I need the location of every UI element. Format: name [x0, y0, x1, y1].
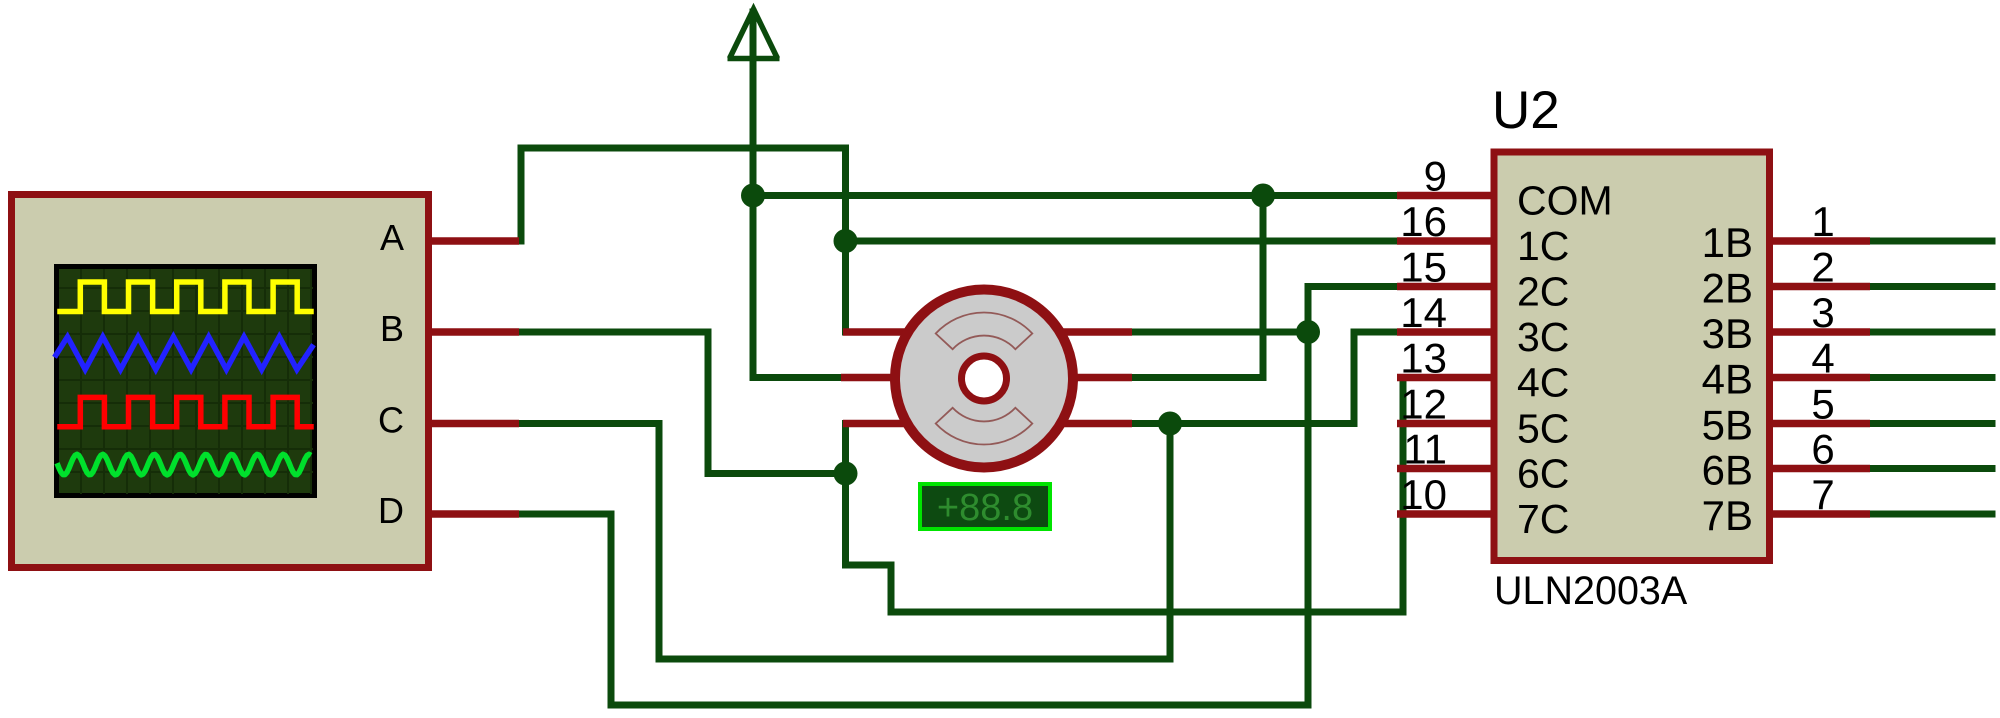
pin stub chip right 3 — [1769, 328, 1870, 336]
svg-text:6C: 6C — [1517, 451, 1569, 497]
junction node COM-power — [741, 184, 765, 208]
wire net-C from scope-C — [521, 424, 1170, 660]
junction node COM / motor-R2 — [1251, 184, 1275, 208]
svg-text:1B: 1B — [1702, 219, 1753, 266]
svg-text:3: 3 — [1811, 289, 1834, 336]
svg-text:COM: COM — [1517, 178, 1613, 224]
svg-text:11: 11 — [1403, 426, 1447, 473]
svg-text:6: 6 — [1811, 426, 1834, 473]
svg-text:D: D — [378, 490, 404, 531]
wire net-A to chip pin16 1C — [846, 238, 1398, 245]
wire output 1B — [1868, 238, 1992, 245]
pin stub scope C — [427, 420, 519, 428]
svg-text:5B: 5B — [1702, 402, 1753, 449]
svg-text:4: 4 — [1811, 335, 1834, 382]
svg-text:1: 1 — [1811, 198, 1834, 245]
wire net-B from scope-B — [521, 332, 846, 474]
pin stub chip left row0 — [1397, 192, 1496, 200]
junction node C / 3C — [1158, 412, 1182, 436]
pin stub motor R1 — [1048, 328, 1132, 336]
pin stub chip left row7 — [1397, 510, 1496, 518]
svg-text:14: 14 — [1400, 289, 1447, 336]
svg-text:10: 10 — [1400, 471, 1447, 518]
screen grid — [59, 269, 313, 494]
svg-text:2C: 2C — [1517, 269, 1569, 315]
rpm display — [920, 484, 1050, 529]
svg-text:5: 5 — [1811, 381, 1834, 428]
wire output 6B — [1868, 465, 1992, 472]
wire output 7B — [1868, 511, 1992, 518]
junction node B / 4C — [834, 462, 858, 486]
wire net-A scope-A to motor-L1 — [521, 148, 846, 332]
svg-text:7: 7 — [1811, 471, 1834, 518]
svg-text:+88.8: +88.8 — [937, 487, 1033, 529]
svg-text:15: 15 — [1400, 244, 1447, 291]
motor rotor slot bottom — [936, 408, 1033, 445]
pin stub chip right 4 — [1769, 374, 1870, 382]
svg-text:4C: 4C — [1517, 360, 1569, 406]
ULN2003A chip U2 body — [1494, 152, 1770, 561]
pin stub chip right 1 — [1769, 237, 1870, 245]
pin stub motor L1 — [843, 328, 920, 336]
svg-text:ULN2003A: ULN2003A — [1494, 569, 1688, 613]
wire net-D motor-R1 branch — [1130, 329, 1308, 336]
motor rotor slot top — [936, 312, 1033, 349]
pin stub chip right 6 — [1769, 465, 1870, 473]
svg-text:U2: U2 — [1492, 81, 1560, 140]
wire output 3B — [1868, 329, 1992, 336]
wire net-D to chip pin15 2C — [521, 287, 1398, 706]
pin stub chip left row1 — [1397, 237, 1496, 245]
power symbol VCC arrow — [728, 9, 780, 59]
svg-text:2B: 2B — [1702, 265, 1753, 312]
svg-text:3B: 3B — [1702, 310, 1753, 357]
pin stub chip left row3 — [1397, 328, 1496, 336]
wire net-C motor-R3 to chip pin14 3C — [1130, 332, 1398, 424]
pin stub motor L3 — [843, 420, 920, 428]
pin stub scope B — [427, 328, 519, 336]
svg-text:3C: 3C — [1517, 314, 1569, 360]
svg-text:7C: 7C — [1517, 496, 1569, 542]
svg-text:1C: 1C — [1517, 223, 1569, 269]
pin stub chip left row2 — [1397, 283, 1496, 291]
svg-text:9: 9 — [1424, 153, 1447, 200]
stepper motor body — [895, 290, 1073, 468]
pin stub scope D — [427, 510, 519, 518]
svg-text:7B: 7B — [1702, 492, 1753, 539]
svg-text:12: 12 — [1400, 381, 1447, 428]
pin stub chip left row5 — [1397, 420, 1496, 428]
wire output 5B — [1868, 420, 1992, 427]
svg-text:2: 2 — [1811, 244, 1834, 291]
svg-text:5C: 5C — [1517, 406, 1569, 452]
junction node A / 1C — [834, 229, 858, 253]
pin stub chip right 7 — [1769, 510, 1870, 518]
wire net-COM branch to motor-R2 — [1130, 196, 1263, 378]
svg-text:13: 13 — [1400, 335, 1447, 382]
svg-text:4B: 4B — [1702, 356, 1753, 403]
wire net-COM to chip pin9 COM — [753, 192, 1397, 199]
oscilloscope/pattern-generator box — [12, 195, 429, 568]
svg-text:6B: 6B — [1702, 447, 1753, 494]
pin stub motor L2 — [841, 374, 920, 382]
motor hub — [962, 356, 1007, 401]
waveform yellow square — [60, 282, 311, 312]
pin stub chip right 2 — [1769, 283, 1870, 291]
wire net-B motor-L3 to chip pin13 4C — [846, 378, 1404, 613]
pin stub motor R3 — [1048, 420, 1132, 428]
junction node D / motor-R1 — [1296, 320, 1320, 344]
pin stub chip left row4 — [1397, 374, 1496, 382]
waveform red square — [60, 397, 311, 426]
svg-text:C: C — [378, 400, 404, 441]
pin stub chip left row6 — [1397, 465, 1496, 473]
wire output 2B — [1868, 283, 1992, 290]
pin stub chip right 5 — [1769, 420, 1870, 428]
pin stub scope A — [427, 237, 519, 245]
wire net-COM power arrow to motor-L2 — [753, 12, 841, 378]
wire output 4B — [1868, 374, 1992, 381]
waveform green sine — [57, 454, 311, 475]
scope screen — [57, 267, 315, 496]
svg-text:A: A — [380, 217, 404, 258]
svg-text:16: 16 — [1400, 198, 1447, 245]
svg-text:B: B — [380, 308, 404, 349]
waveform blue triangle — [56, 337, 312, 370]
pin stub motor R2 — [1048, 374, 1132, 382]
